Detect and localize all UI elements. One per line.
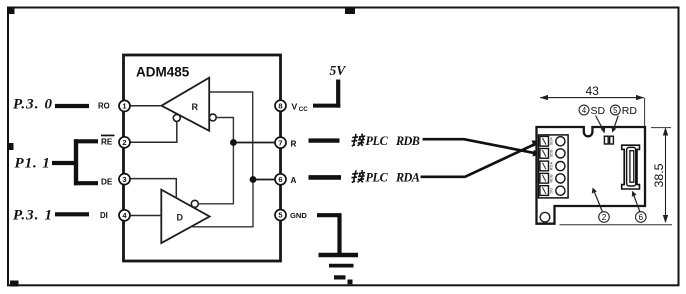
wire pin6 stub	[309, 175, 342, 180]
wire RE pin2 to R enable bubble	[129, 122, 177, 143]
svg-text:3: 3	[122, 175, 126, 184]
bubble on R enable	[173, 114, 180, 121]
wire node A to pin6	[253, 179, 276, 181]
svg-text:5: 5	[278, 211, 282, 220]
svg-text:2: 2	[122, 138, 126, 147]
svg-text:P1. 1: P1. 1	[15, 156, 51, 172]
svg-text:2: 2	[602, 213, 607, 222]
svg-text:SDA: SDA	[549, 137, 554, 146]
label (4)SD	[579, 105, 589, 115]
svg-text:5: 5	[613, 106, 618, 115]
svg-text:RDB: RDB	[549, 174, 554, 183]
svg-text:GND: GND	[290, 211, 307, 220]
wire DE pin3 to D top edge	[129, 179, 176, 198]
node A junction	[250, 176, 257, 183]
svg-text:P.3. 0: P.3. 0	[13, 97, 53, 113]
svg-text:RD: RD	[622, 105, 638, 117]
terminal name strip	[549, 137, 554, 194]
driver D triangle	[161, 190, 209, 244]
pin 1	[119, 100, 130, 111]
terminal holes column	[556, 137, 565, 196]
svg-text:RDA: RDA	[549, 162, 554, 171]
svg-text:A: A	[291, 176, 297, 185]
wire fork to RE	[74, 139, 98, 143]
net label 接PLC RDB	[351, 134, 366, 146]
svg-text:8: 8	[278, 101, 282, 110]
svg-text:SD: SD	[591, 105, 606, 117]
svg-text:6: 6	[278, 175, 282, 184]
PLC port board outline	[537, 127, 646, 224]
svg-text:ADM485: ADM485	[136, 65, 190, 80]
bubble on D inverting output	[191, 200, 198, 207]
svg-text:5V: 5V	[330, 63, 347, 78]
bubble on R inverting input	[209, 114, 216, 121]
wire VCC to 5V	[313, 104, 340, 108]
wire P1.1 stub	[52, 161, 78, 165]
pin 8	[275, 100, 286, 111]
svg-text:P.3. 1: P.3. 1	[13, 208, 53, 224]
svg-text:DI: DI	[100, 211, 108, 220]
terminal screws column	[540, 136, 549, 195]
svg-text:6: 6	[639, 213, 644, 222]
label (5)RD	[610, 105, 620, 115]
wire D noninverting output to node A	[191, 180, 253, 227]
wire pin1 to R apex	[129, 105, 162, 107]
svg-text:43: 43	[586, 84, 600, 98]
wire fork vertical	[74, 139, 78, 185]
board mounting hole	[540, 212, 550, 222]
dimension 38.5	[665, 129, 667, 223]
receiver R triangle	[162, 78, 210, 131]
svg-text:R: R	[192, 102, 199, 112]
indicator 5 RD window	[610, 136, 614, 144]
svg-text:1: 1	[122, 102, 126, 111]
dimension 43	[540, 97, 644, 99]
wire pin4 to D base	[129, 215, 161, 217]
indicator 4 SD window	[604, 136, 608, 144]
svg-text:SG: SG	[549, 188, 554, 194]
node B junction	[230, 139, 237, 146]
pin 2	[119, 137, 130, 148]
pin 5	[275, 210, 286, 221]
svg-text:D: D	[177, 213, 184, 223]
wire R noninverting input from node A	[209, 92, 253, 180]
pin 7	[275, 137, 286, 148]
svg-text:7: 7	[278, 138, 282, 147]
wire node B to pin7	[233, 142, 276, 144]
svg-text:38.5: 38.5	[652, 163, 666, 187]
wire D inverting output to node B	[198, 143, 233, 204]
wire RDA to PLC terminal 1	[421, 144, 537, 177]
svg-text:SDB: SDB	[549, 149, 554, 158]
IC U1 ADM485 body	[124, 55, 281, 261]
connector 6 card-edge	[622, 145, 640, 189]
label (6) connector	[636, 212, 647, 223]
ground symbol	[317, 213, 342, 217]
wire R inverting input from node B	[216, 118, 233, 143]
svg-text:V: V	[292, 101, 298, 111]
wire P.3.0 lead	[55, 104, 89, 108]
pin 4	[119, 210, 130, 221]
svg-text:4: 4	[582, 106, 587, 115]
terminal block outline	[539, 135, 569, 198]
svg-text:CC: CC	[299, 106, 308, 113]
svg-text:R: R	[291, 139, 297, 148]
wire RDB to PLC terminal 2	[423, 139, 537, 153]
pin 3	[119, 174, 130, 185]
wire P.3.1 lead	[55, 212, 89, 216]
svg-text:RDA: RDA	[395, 171, 420, 185]
svg-text:RO: RO	[98, 102, 110, 111]
net label 接PLC RDA	[351, 170, 366, 182]
svg-text:RE: RE	[101, 137, 113, 146]
wire fork to DE	[74, 181, 98, 185]
svg-text:RDB: RDB	[395, 134, 420, 148]
svg-text:PLC: PLC	[366, 171, 389, 185]
svg-text:PLC: PLC	[366, 134, 389, 148]
wire pin7 stub	[309, 138, 340, 142]
label (2) terminal block	[599, 212, 610, 223]
pin 6	[275, 174, 286, 185]
svg-text:DE: DE	[101, 177, 113, 186]
